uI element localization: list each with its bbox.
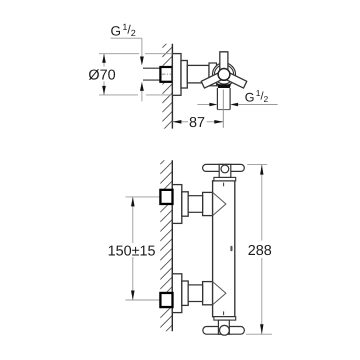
288 extension bottom [246,333,272,335]
87 dimension [172,121,188,123]
threaded nipple (bold) [160,67,172,82]
288 extension top [247,163,267,165]
bottom handle bar [203,327,244,335]
outlet pipe [216,88,218,110]
upper union escutcheon [172,185,182,224]
handle spoke up [220,52,228,75]
step cylinder [181,61,187,89]
upper union step [182,192,188,216]
neck before bezel [209,63,217,86]
lower cone chevron [213,282,226,305]
dark outlet collar [217,84,231,88]
diam70 extension line top [99,53,139,55]
svg-text:87: 87 [189,115,205,131]
bottom handle block [218,320,229,334]
grohe logo mark [230,246,232,252]
outlet axis extension line [222,90,224,128]
valve body [187,65,209,83]
diam70 dimension line + arrows [103,54,105,67]
lower threaded nipple (bold) [160,293,172,307]
bezel ring inner [214,65,233,84]
lower union pipe [188,285,202,302]
leader G1/2 top-left [111,37,142,39]
escutcheon flange [172,54,181,96]
upper union pipe [188,196,202,213]
top handle circle [221,165,229,173]
wall face line (bottom figure) [171,160,173,331]
mixer body [213,181,235,317]
handle hub [218,69,230,81]
bottom tick [223,311,225,315]
top valve band [214,177,236,180]
handle spoke lower-left [201,71,226,88]
lower union nut [203,282,213,305]
svg-text:Ø70: Ø70 [88,67,115,83]
svg-text:288: 288 [248,243,272,259]
G1/2 outlet dimension [198,104,210,106]
top handle block [219,164,231,177]
diam70 extension line bottom [99,94,138,96]
150 +-15 dimension [132,197,134,243]
288 dimension line [261,165,263,241]
upper union nut [203,192,213,215]
wall face line (top figure) [171,44,173,129]
top handle bar [203,164,245,171]
upper cone chevron [213,192,226,215]
nipple centerline [161,73,176,75]
lower union escutcheon [172,274,182,313]
svg-text:150±15: 150±15 [108,243,156,259]
centerline lower connection [126,299,174,301]
supply pipe in wall [143,67,161,69]
lower pointer of G1/2 label [140,82,144,91]
bottom valve band [214,317,236,320]
lower union step [182,281,188,305]
upper threaded nipple (bold) [160,190,172,204]
bottom handle circle [220,325,230,335]
top tick [223,183,225,187]
bezel ring outer [213,63,236,86]
centerline upper connection [126,196,174,198]
handle spoke lower-right [222,71,247,88]
